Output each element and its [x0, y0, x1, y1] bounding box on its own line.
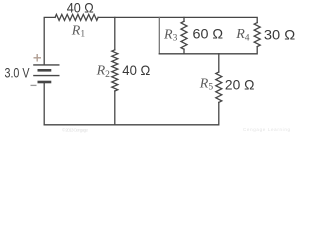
wire: R3 bottom lead: [183, 49, 185, 54]
battery minus sign: [31, 84, 37, 86]
svg-text:Cengage Learning: Cengage Learning: [243, 127, 290, 132]
wire: R5 top lead: [218, 54, 220, 72]
svg-text:20 Ω: 20 Ω: [225, 77, 255, 93]
svg-text:40 Ω: 40 Ω: [67, 0, 94, 15]
svg-text:© 2013 Cengage: © 2013 Cengage: [62, 127, 88, 133]
svg-text:40 Ω: 40 Ω: [122, 62, 150, 78]
battery long plate 1: [33, 64, 59, 66]
wire: R2 bottom lead: [114, 91, 116, 125]
wire: R3 top lead: [183, 17, 185, 21]
resistor R2: [112, 50, 118, 91]
resistor R3: [181, 21, 187, 49]
wire: R2 top lead: [114, 17, 116, 49]
battery B 3.0 V: [33, 65, 59, 82]
resistor R5: [216, 72, 222, 102]
resistor R1: [55, 14, 98, 20]
wire: top rail right of R1 to R4 corner: [98, 17, 257, 22]
wire: R5 bottom lead + bottom rail: [44, 102, 219, 124]
wire: R4 bottom lead + parallel-box bottom rail: [159, 47, 257, 54]
battery plus sign: [34, 54, 42, 62]
wire: battery negative lead: [43, 82, 45, 125]
svg-text:60 Ω: 60 Ω: [193, 26, 224, 42]
battery short plate 1: [38, 69, 52, 72]
battery long plate 2: [33, 75, 59, 77]
resistor R4: [254, 23, 260, 47]
svg-text:3.0 V: 3.0 V: [5, 65, 30, 81]
wire: left parallel-branch drop: [158, 17, 160, 53]
svg-text:30 Ω: 30 Ω: [264, 27, 295, 43]
wire: top rail: [44, 17, 55, 65]
battery short plate 2: [38, 81, 52, 84]
